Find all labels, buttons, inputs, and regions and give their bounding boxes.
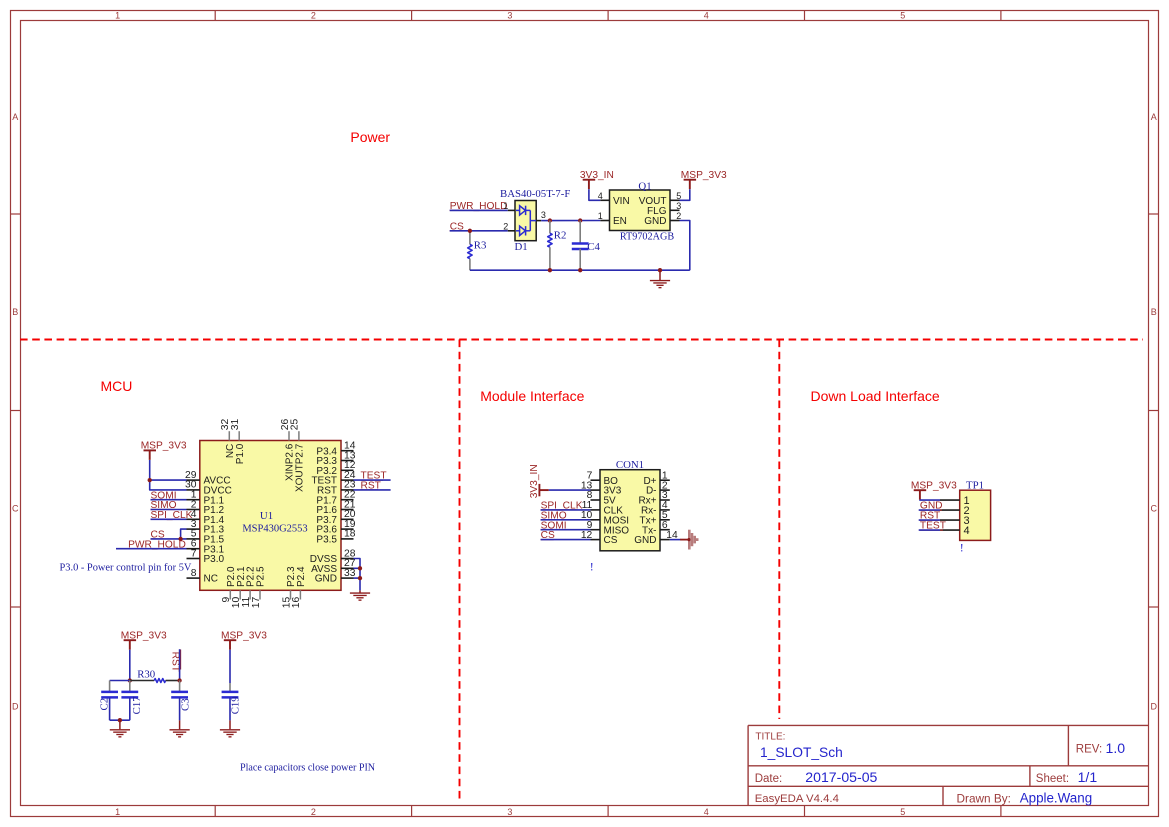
- TP1 refdes: [966, 479, 984, 491]
- ground (C2/C17): [110, 720, 130, 737]
- wire MSP_3V3 down to R30 node: [129, 650, 131, 681]
- U1 pin 13 P3.3: [316, 450, 355, 467]
- section divider vertical right: [778, 340, 780, 720]
- svg-text:MSP430G2553: MSP430G2553: [242, 523, 307, 534]
- svg-text:16: 16: [291, 597, 302, 609]
- ground rail wire (power): [470, 269, 690, 271]
- IC U1 MSP430G2553 body: [200, 441, 341, 591]
- U1 pin 31 P1.0 (top): [230, 418, 246, 464]
- U1 pin 32 NC (top): [220, 418, 236, 458]
- svg-text:C17: C17: [131, 696, 143, 715]
- wire 3V3_IN to CON1 pin13: [549, 489, 591, 491]
- title block: [748, 725, 1148, 805]
- ground (U1): [350, 590, 370, 600]
- C17 refdes: [131, 696, 143, 715]
- CON1 pin 9 MISO: [587, 520, 630, 536]
- wire C2/C17 bottom rail: [110, 719, 130, 721]
- CON1 refdes: [616, 459, 644, 471]
- svg-text:3: 3: [507, 10, 512, 20]
- U1 pin 7 P3.0: [187, 548, 225, 565]
- svg-text:U1: U1: [260, 510, 273, 522]
- diode D1 BAS40-05T-7-F: [515, 201, 536, 241]
- CON1 pin 1 D+: [643, 470, 669, 486]
- U1 pin 12 P3.2: [316, 460, 355, 477]
- section divider vertical left: [459, 340, 461, 802]
- svg-text:1.0: 1.0: [1106, 740, 1126, 756]
- U1 pin 23 RST: [317, 480, 356, 497]
- D1 value BAS40-05T-7-F: [500, 188, 570, 200]
- section divider horizontal: [20, 339, 1143, 341]
- D1 pin 3: [536, 210, 550, 220]
- U1 pin 1 P1.1: [187, 490, 225, 507]
- svg-text:Q1: Q1: [638, 181, 651, 193]
- junction C4 / rail: [578, 268, 582, 272]
- net label SPI_CLK: [151, 510, 193, 521]
- svg-text:Down Load Interface: Down Load Interface: [811, 388, 940, 404]
- svg-text:REV:: REV:: [1076, 743, 1102, 755]
- D1 refdes: [515, 241, 528, 253]
- svg-text:2: 2: [503, 221, 508, 231]
- TP1 pin 3: [940, 515, 970, 527]
- U1 pin 5 P1.5: [187, 529, 225, 546]
- svg-text:P3.5: P3.5: [316, 535, 337, 546]
- svg-text:8: 8: [191, 568, 197, 579]
- svg-text:RST: RST: [361, 481, 381, 492]
- net label PWR_HOLD (MCU): [116, 539, 187, 550]
- wire MSP_3V3 to C19: [229, 650, 231, 683]
- connector CON1 body: [600, 470, 660, 551]
- wire RST down to R30 right: [179, 649, 181, 680]
- section label MCU: [101, 378, 133, 394]
- svg-text:P2.5: P2.5: [256, 566, 267, 587]
- svg-text:3V3_IN: 3V3_IN: [529, 464, 540, 498]
- svg-text:Power: Power: [350, 129, 390, 145]
- Q1 pin 5 VOUT: [639, 191, 682, 207]
- U1 pin 11 P2.2 (bottom): [241, 566, 257, 608]
- net label GND (TP1): [919, 501, 943, 512]
- svg-text:R3: R3: [474, 240, 487, 252]
- capacitor C2: [101, 681, 118, 721]
- svg-text:MCU: MCU: [101, 378, 133, 394]
- net label TEST: [354, 471, 391, 482]
- net flag MSP_3V3 (MCU): [141, 441, 187, 460]
- net label CS (MCU): [151, 530, 187, 541]
- C3 refdes: [179, 698, 191, 711]
- svg-text:!: !: [960, 541, 964, 555]
- svg-text:17: 17: [251, 597, 262, 609]
- junction R30 right / C3: [177, 678, 181, 682]
- wire VOUT to MSP_3V3: [680, 189, 690, 200]
- svg-text:5: 5: [676, 191, 681, 201]
- U1 pin 27 AVSS: [311, 558, 356, 575]
- wire P1.3 to CS net: [181, 529, 187, 539]
- wire PWR_HOLD to D1 pin1: [450, 209, 508, 211]
- svg-text:R2: R2: [554, 230, 567, 242]
- net label CS (CON1): [541, 530, 591, 541]
- CON1 pin 10 MOSI: [581, 510, 629, 526]
- svg-text:D: D: [1150, 701, 1157, 711]
- resistor R30: [130, 679, 180, 683]
- svg-text:BAS40-05T-7-F: BAS40-05T-7-F: [500, 188, 570, 200]
- CON1 pin 5 Tx+: [640, 510, 670, 526]
- R2 refdes: [554, 230, 567, 242]
- Q1 pin 2 GND: [644, 211, 681, 227]
- CON1 pin 8 5V: [587, 490, 616, 506]
- svg-text:P3.0: P3.0: [204, 554, 225, 565]
- Q1 refdes: [638, 181, 651, 193]
- svg-text:XOUTP2.7: XOUTP2.7: [295, 443, 306, 492]
- capacitor C17: [121, 681, 138, 721]
- test point header TP1 body: [960, 490, 991, 540]
- junction GND: [358, 576, 362, 580]
- capacitor C4: [572, 221, 589, 271]
- svg-text:C: C: [1150, 504, 1157, 514]
- wire GND pin to rail: [680, 221, 690, 271]
- Q1 pin 4 VIN: [598, 191, 630, 207]
- CON1 pin 2 D-: [646, 480, 670, 496]
- U1 pin 18 P3.5: [316, 529, 355, 546]
- U1 pin 21 P1.6: [316, 499, 355, 516]
- note P3.0 power control: [60, 562, 192, 573]
- net label CS (power): [450, 221, 464, 232]
- svg-text:C4: C4: [587, 241, 600, 253]
- svg-text:25: 25: [290, 418, 301, 430]
- wire MSP_3V3 to TP1 pin1: [920, 499, 940, 501]
- svg-text:GND: GND: [634, 535, 656, 546]
- svg-text:18: 18: [344, 529, 356, 540]
- U1 pin 26 XINP2.6 (top): [280, 418, 296, 480]
- net flag 3V3_IN (rotated, CON1): [529, 464, 549, 498]
- CON1 pin 6 Tx-: [642, 520, 670, 536]
- CON1 pin 7 BO: [587, 470, 619, 486]
- net label SOMI: [151, 490, 187, 501]
- svg-text:33: 33: [344, 568, 356, 579]
- U1 pin 30 DVCC: [185, 480, 232, 497]
- svg-text:4: 4: [964, 525, 970, 537]
- CON1 pin 13 3V3: [581, 480, 622, 496]
- svg-text:Date:: Date:: [755, 773, 783, 785]
- TP1 pin 1: [940, 495, 970, 507]
- svg-text:3: 3: [507, 807, 512, 817]
- svg-text:7: 7: [191, 548, 197, 559]
- svg-text:P2.4: P2.4: [296, 566, 307, 587]
- CON1 pin 3 Rx+: [638, 490, 669, 506]
- svg-text:2: 2: [676, 211, 681, 221]
- resistor R3: [468, 231, 472, 270]
- net label TEST (TP1): [919, 521, 946, 532]
- TP1 pin 4: [940, 525, 970, 537]
- section label Down Load Interface: [811, 388, 940, 404]
- Q1 pin 1 EN: [598, 211, 627, 227]
- U1 pin 19 P3.6: [316, 519, 355, 536]
- svg-text:5: 5: [900, 10, 905, 20]
- TP1 pin 2: [940, 505, 970, 517]
- U1 pin 2 P1.2: [187, 499, 225, 516]
- svg-text:TITLE:: TITLE:: [755, 732, 785, 743]
- svg-text:5: 5: [900, 807, 905, 817]
- junction AVCC: [148, 478, 152, 482]
- svg-text:2017-05-05: 2017-05-05: [805, 769, 877, 785]
- net label SPI_CLK (CON1): [541, 501, 591, 512]
- U1 pin 24 TEST: [311, 470, 355, 487]
- U1 pin 15 P2.3 (bottom): [281, 566, 297, 608]
- svg-text:B: B: [1151, 307, 1157, 317]
- U1 value MSP430G2553: [242, 523, 307, 534]
- svg-text:1: 1: [115, 807, 120, 817]
- svg-text:EasyEDA V4.4.4: EasyEDA V4.4.4: [755, 793, 839, 805]
- U1 pin 17 P2.5 (bottom): [251, 566, 267, 608]
- CON1 pin 12 CS: [581, 530, 618, 546]
- wire CS to D1 pin2: [450, 230, 508, 232]
- U1 pin 6 P3.1: [187, 539, 225, 556]
- ground (power rail): [650, 270, 670, 287]
- U1 pin 10 P2.1 (bottom): [231, 566, 247, 608]
- D1 pin 2: [503, 221, 515, 231]
- svg-text:CON1: CON1: [616, 459, 644, 471]
- U1 pin 8 NC: [187, 568, 218, 585]
- net flag MSP_3V3 (power out): [681, 170, 727, 189]
- svg-text:C19: C19: [229, 696, 241, 714]
- svg-text:1: 1: [598, 211, 603, 221]
- net label SOMI (CON1): [541, 520, 591, 531]
- C4 refdes: [587, 241, 600, 253]
- svg-text:A: A: [12, 112, 18, 122]
- U1 pin 29 AVCC: [185, 470, 231, 487]
- net flag MSP_3V3 (C2/C17): [121, 630, 167, 649]
- R3 refdes: [474, 240, 487, 252]
- CON1 pin 14 GND: [634, 530, 678, 546]
- junction CS / R3: [468, 229, 472, 233]
- svg-text:Drawn By:: Drawn By:: [957, 791, 1011, 805]
- svg-text:B: B: [12, 307, 18, 317]
- U1 pin 20 P3.7: [316, 509, 355, 526]
- svg-text:1_SLOT_Sch: 1_SLOT_Sch: [760, 745, 843, 760]
- svg-text:Sheet:: Sheet:: [1036, 773, 1069, 785]
- svg-text:1: 1: [503, 201, 508, 211]
- wire 3V3_IN to VIN: [589, 189, 600, 200]
- svg-text:4: 4: [704, 807, 709, 817]
- net flag MSP_3V3 (C19): [221, 630, 267, 649]
- wire CON1 pin14 to ground: [670, 539, 689, 541]
- svg-text:P3.0 - Power control pin for 5: P3.0 - Power control pin for 5V: [60, 562, 192, 573]
- U1 pin 3 P1.3: [187, 519, 225, 536]
- svg-text:EN: EN: [613, 216, 627, 227]
- svg-text:1: 1: [115, 10, 120, 20]
- svg-text:Apple.Wang: Apple.Wang: [1020, 791, 1092, 806]
- svg-text:C: C: [12, 504, 19, 514]
- svg-text:31: 31: [230, 418, 241, 430]
- svg-text:P1.0: P1.0: [235, 443, 246, 464]
- CON1 pin 4 Rx-: [641, 500, 670, 516]
- svg-text:C3: C3: [179, 698, 191, 711]
- R30 refdes: [137, 668, 155, 680]
- U1 pin 33 GND: [315, 568, 356, 585]
- CON1 pin 11 CLK: [582, 500, 624, 516]
- junction AVSS: [358, 566, 362, 570]
- no-connect marker CON1: [590, 560, 594, 574]
- svg-text:4: 4: [598, 191, 603, 201]
- IC Q1 RT9702AGB body: [610, 190, 671, 231]
- U1 pin 28 DVSS: [310, 548, 356, 565]
- capacitor C3: [171, 681, 188, 721]
- U1 refdes: [260, 510, 273, 522]
- svg-text:TP1: TP1: [966, 479, 984, 491]
- svg-text:2: 2: [311, 807, 316, 817]
- ground (CON1 pin14, rotated): [687, 530, 697, 550]
- svg-text:C2: C2: [99, 698, 111, 711]
- no-connect marker TP1: [960, 541, 964, 555]
- svg-text:2: 2: [311, 10, 316, 20]
- net flag 3V3_IN: [580, 170, 614, 189]
- svg-text:1/1: 1/1: [1078, 769, 1098, 785]
- junction R2 / rail: [548, 268, 552, 272]
- svg-text:CS: CS: [604, 535, 618, 546]
- junction C2/C17 ground: [118, 718, 122, 722]
- U1 pin 14 P3.4: [316, 441, 355, 458]
- svg-text:GND: GND: [315, 574, 337, 585]
- resistor R2: [548, 221, 552, 271]
- wire MSP_3V3 to AVCC/DVCC: [150, 460, 187, 490]
- junction at C4 top: [578, 218, 582, 222]
- section label Power: [350, 129, 390, 145]
- U1 pin 16 P2.4 (bottom): [291, 566, 307, 608]
- svg-text:NC: NC: [204, 574, 218, 585]
- net label SIMO (CON1): [541, 510, 591, 521]
- C19 refdes: [229, 696, 241, 714]
- svg-text:Place capacitors close power P: Place capacitors close power PIN: [240, 763, 376, 774]
- svg-text:3: 3: [676, 201, 681, 211]
- ground (C19): [220, 720, 240, 736]
- svg-text:D1: D1: [515, 241, 528, 253]
- svg-text:!: !: [590, 560, 594, 574]
- net label SIMO: [151, 500, 187, 511]
- svg-text:D: D: [12, 701, 19, 711]
- net label RST: [354, 481, 391, 492]
- svg-text:3: 3: [541, 210, 546, 220]
- wire D1 pin3 to EN: [550, 220, 600, 222]
- capacitor C19: [222, 683, 239, 720]
- svg-text:GND: GND: [644, 216, 666, 227]
- net label PWR_HOLD: [450, 201, 508, 212]
- U1 pin 9 P2.0 (bottom): [221, 566, 237, 603]
- svg-text:A: A: [1151, 112, 1157, 122]
- note place capacitors: [240, 763, 376, 774]
- junction P1.3/P1.5 CS: [178, 537, 182, 541]
- svg-text:R30: R30: [137, 668, 155, 680]
- net label RST (TP1): [919, 511, 941, 522]
- U1 pin 22 P1.7: [316, 490, 355, 507]
- junction R30 left: [128, 678, 132, 682]
- svg-text:Module Interface: Module Interface: [480, 388, 584, 404]
- net label RST (rotated): [170, 650, 181, 672]
- ground (C3): [170, 720, 190, 736]
- section label Module Interface: [480, 388, 584, 404]
- wire DVSS/AVSS/GND to ground: [354, 559, 361, 591]
- junction ground / rail: [658, 268, 662, 272]
- U1 pin 25 XOUTP2.7 (top): [290, 418, 306, 492]
- svg-text:RT9702AGB: RT9702AGB: [620, 231, 674, 242]
- net flag MSP_3V3 (TP1): [911, 480, 957, 499]
- Q1 pin 3 FLG: [647, 201, 681, 217]
- junction at D1 pin3 / R2: [548, 218, 552, 222]
- U1 pin 4 P1.4: [187, 509, 225, 526]
- svg-text:4: 4: [704, 10, 709, 20]
- C2 refdes: [99, 698, 111, 711]
- D1 pin 1: [503, 201, 515, 211]
- svg-text:VIN: VIN: [613, 196, 630, 207]
- Q1 value RT9702AGB: [620, 231, 674, 242]
- wire C2/C17 top rail: [110, 680, 130, 682]
